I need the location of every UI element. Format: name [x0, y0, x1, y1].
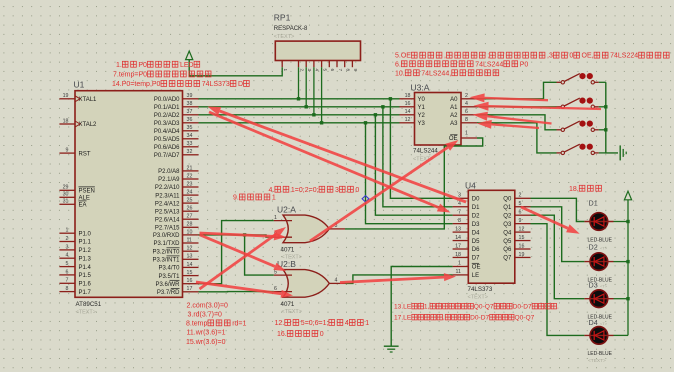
wire P0.2 net from U1 pin37 to U3 Y2: [199, 114, 400, 116]
svg-text:17: 17: [455, 243, 461, 249]
svg-text:18: 18: [63, 118, 69, 124]
svg-text:U3:A: U3:A: [411, 83, 430, 93]
svg-text:18: 18: [455, 252, 461, 258]
svg-text:P1.0: P1.0: [79, 231, 92, 237]
wire U4 Q2 to LED D3: [531, 215, 585, 299]
svg-text:D5: D5: [472, 239, 480, 245]
power symbol VCC arrow for LED bus: [624, 191, 631, 200]
svg-text:6: 6: [519, 210, 522, 216]
svg-text:74LS244: 74LS244: [475, 61, 503, 68]
svg-text:<TEXT>: <TEXT>: [282, 309, 302, 315]
svg-text:P0.3/AD3: P0.3/AD3: [154, 121, 180, 127]
svg-text:1: 1: [274, 215, 277, 221]
junction P0.2 branch: [374, 113, 377, 116]
svg-text:Q2: Q2: [503, 213, 512, 219]
svg-text:<TEXT>: <TEXT>: [76, 310, 96, 316]
svg-text:32: 32: [187, 149, 193, 155]
wire SW1 to ground bus: [599, 81, 606, 83]
U3:A right pin stubs A0-A3: [461, 99, 477, 123]
svg-text:13: 13: [187, 254, 193, 260]
junction P3.0 branch: [243, 233, 246, 236]
junction SW3 bus: [604, 128, 607, 131]
svg-text:7: 7: [338, 69, 343, 72]
svg-text:P1.1: P1.1: [79, 240, 92, 246]
svg-text:RESPACK-8: RESPACK-8: [274, 26, 308, 32]
arrow to U4 LE pin: [340, 273, 456, 282]
svg-text:18.: 18.: [569, 186, 579, 193]
wire U2:A output pin3 to U3:A OE: [345, 138, 483, 229]
svg-text:P0: P0: [138, 62, 147, 69]
LED D1 LED-BLUE: [584, 213, 613, 231]
svg-text:6.: 6.: [395, 61, 401, 68]
svg-text:D2: D2: [589, 243, 598, 252]
arrow switch to U3 A2: [473, 112, 552, 124]
svg-text:P3.5/T1: P3.5/T1: [158, 274, 180, 280]
arrow to U2:B pin5: [200, 235, 287, 271]
svg-text:P2.6/A14: P2.6/A14: [155, 217, 180, 223]
svg-text:<TEXT>: <TEXT>: [588, 358, 606, 364]
svg-text:Q0: Q0: [503, 197, 512, 203]
svg-text:D0: D0: [472, 197, 480, 203]
U2:B pin numbers: [274, 269, 337, 292]
svg-text:P0.5/AD5: P0.5/AD5: [154, 137, 180, 143]
arrow to LED D1: [521, 207, 580, 234]
svg-text:26: 26: [187, 206, 193, 212]
svg-text:28: 28: [187, 222, 193, 228]
U1 left pin numbers: [63, 93, 69, 292]
svg-text:15.wr(3.6)=0: 15.wr(3.6)=0: [186, 339, 226, 346]
svg-text:,: ,: [443, 315, 445, 322]
wire P3.0 branch to U2:B pin5: [245, 235, 274, 275]
U1 right pin numbers: [187, 93, 193, 292]
svg-text:D0-D7: D0-D7: [470, 315, 489, 322]
wire P3.7 to U2:B pin6: [199, 291, 274, 293]
wire P3.6 to U2:A pin1: [199, 221, 274, 284]
wire P0.0 net from U1 pin39 to U3 Y0: [199, 98, 400, 100]
svg-text:P0.2/AD2: P0.2/AD2: [154, 113, 180, 119]
svg-text:3: 3: [335, 187, 339, 194]
svg-text:LED-BLUE: LED-BLUE: [588, 351, 613, 357]
wires LED right leads to bus: [614, 222, 629, 336]
svg-text:2: 2: [519, 193, 522, 199]
svg-text:23: 23: [187, 181, 193, 187]
ground symbol below U4: [384, 346, 399, 352]
junction LED D3 bus: [626, 297, 629, 300]
svg-text:OE,: OE,: [582, 53, 594, 60]
svg-text:<TEXT>: <TEXT>: [468, 295, 488, 301]
svg-text:16: 16: [519, 243, 525, 249]
MCU U1 AT89C51 body: [75, 91, 183, 298]
svg-text:4: 4: [335, 278, 338, 284]
svg-text:LE: LE: [472, 273, 479, 279]
svg-text:P0.4/AD4: P0.4/AD4: [154, 129, 180, 135]
svg-text:33: 33: [187, 141, 193, 147]
LED D3 LED-BLUE: [584, 290, 613, 308]
svg-text:8: 8: [465, 117, 468, 123]
svg-text:1,: 1,: [424, 304, 430, 311]
switch SW2: [557, 98, 599, 109]
svg-text:2: 2: [66, 236, 69, 242]
svg-text:1: 1: [365, 320, 369, 327]
svg-text:P2.5/A13: P2.5/A13: [155, 209, 180, 215]
svg-text:Y0: Y0: [418, 97, 426, 103]
U3:A right pin numbers: [465, 93, 468, 123]
svg-text:Q6: Q6: [503, 247, 512, 253]
svg-text:17: 17: [187, 286, 193, 292]
svg-text:Q7: Q7: [503, 256, 512, 262]
svg-text:4: 4: [315, 69, 320, 72]
svg-text:P1.7: P1.7: [79, 290, 92, 296]
resistor pack RP1 RESPACK-8 body: [275, 41, 360, 60]
annotation note 13/17 below U4: [394, 303, 559, 321]
wire U4 Q3 to LED D4: [531, 224, 585, 336]
arrow switch to U3 A3: [477, 120, 540, 129]
svg-text:4: 4: [66, 253, 69, 259]
svg-text:P2.1/A9: P2.1/A9: [158, 177, 180, 183]
junction SW2 bus: [604, 105, 607, 108]
svg-text:P3.4/T0: P3.4/T0: [158, 266, 180, 272]
svg-text:P2.2/A10: P2.2/A10: [155, 185, 180, 191]
wire U3 A2 to switch SW3: [477, 115, 557, 130]
svg-text:5: 5: [66, 261, 69, 267]
wire P0.0 branch down to U4 D0: [390, 99, 452, 199]
U1 XTAL clock markers: [75, 96, 80, 127]
svg-text:<TEXT>: <TEXT>: [274, 34, 294, 40]
svg-text:36: 36: [187, 117, 193, 123]
U2:A input pin stubs: [274, 220, 292, 222]
svg-text:0: 0: [320, 331, 324, 338]
svg-text:A0: A0: [450, 97, 458, 103]
svg-text:Q4: Q4: [503, 230, 512, 236]
wire P0.1 branch down to U4 D1: [383, 107, 453, 207]
svg-text:1.: 1.: [116, 62, 122, 69]
U3:A pin names Y0-Y3: [418, 97, 426, 127]
U4 pin names D0-D7: [472, 197, 480, 262]
svg-text:P0.6/AD6: P0.6/AD6: [154, 145, 180, 151]
or-gate U2:B 4071 body: [283, 270, 329, 298]
svg-text:11: 11: [187, 237, 193, 243]
svg-text:XTAL1: XTAL1: [79, 97, 98, 103]
svg-text:3: 3: [66, 244, 69, 250]
svg-text:P2.3/A11: P2.3/A11: [155, 193, 180, 199]
svg-text:7.temp=P0: 7.temp=P0: [113, 72, 147, 79]
U2:B output pin stub: [329, 282, 345, 284]
LED D2 LED-BLUE: [584, 253, 613, 271]
wire SW2 to ground bus: [599, 106, 606, 108]
svg-text:A3: A3: [450, 121, 458, 127]
svg-text:AT89C51: AT89C51: [76, 301, 102, 308]
annotation note 1/7/14 top-left: [112, 61, 249, 88]
svg-text:PSEN: PSEN: [79, 189, 95, 195]
svg-text:7: 7: [458, 210, 461, 216]
svg-text:<T>: <T>: [600, 321, 608, 326]
svg-text:13: 13: [455, 227, 461, 233]
svg-text:74LS224: 74LS224: [610, 53, 638, 60]
svg-text:13.LE: 13.LE: [394, 304, 412, 311]
svg-text:P0.1/AD1: P0.1/AD1: [154, 105, 180, 111]
svg-text:11.wr(3.6)=1: 11.wr(3.6)=1: [187, 329, 226, 336]
svg-text:Q1: Q1: [503, 205, 512, 211]
svg-text:D1: D1: [472, 205, 480, 211]
svg-text:12: 12: [187, 246, 193, 252]
or-gate U2:A 4071 body: [283, 215, 329, 243]
arrow long to U4 D2 pin: [209, 112, 451, 213]
arrow long to U1 P0.1 pin: [208, 107, 467, 203]
U1 right pin names: [152, 97, 180, 296]
U4 right pin stubs Q0-Q7: [515, 198, 531, 257]
svg-text:P2.7/A15: P2.7/A15: [155, 226, 180, 232]
wire RP1 pin4 to P0.2 net: [313, 67, 315, 115]
svg-text:D2: D2: [472, 213, 480, 219]
svg-text:12: 12: [519, 227, 525, 233]
wire U3 A3 to switch SW4: [477, 123, 557, 153]
junction P0.1 branch: [381, 105, 384, 108]
svg-text:<T>: <T>: [600, 246, 608, 251]
svg-text:7: 7: [66, 278, 69, 284]
junction P0.1/RP1 pin3: [305, 105, 308, 108]
svg-text:RST: RST: [79, 151, 91, 157]
svg-text:4071: 4071: [281, 247, 295, 254]
annotation note 4/9 near U2:A: [233, 186, 359, 201]
svg-text:24: 24: [187, 190, 193, 196]
svg-text:18: 18: [405, 93, 411, 99]
svg-text:P2.4/A12: P2.4/A12: [155, 201, 180, 207]
svg-text:4.: 4.: [269, 187, 275, 194]
wire RP1 pin3 to P0.1 net: [305, 67, 307, 107]
svg-text:P1.2: P1.2: [79, 248, 92, 254]
wire U4 Q1 to LED D2: [531, 207, 585, 262]
svg-text:17.LE: 17.LE: [394, 315, 412, 322]
svg-text:8: 8: [346, 69, 351, 72]
svg-text:4: 4: [465, 101, 468, 107]
svg-text:P1.5: P1.5: [79, 273, 92, 279]
power symbol VCC arrow at RP1 common: [186, 51, 193, 60]
arrow switch to U3 A1: [474, 102, 602, 111]
svg-text:30: 30: [63, 192, 69, 198]
svg-text:D3: D3: [472, 222, 480, 228]
svg-text:6: 6: [66, 269, 69, 275]
svg-text:14.P0=temp,P0: 14.P0=temp,P0: [112, 81, 161, 88]
U2:B input pin stubs: [274, 274, 292, 276]
svg-text:14: 14: [187, 262, 193, 268]
svg-text:P3.2/INT0: P3.2/INT0: [152, 249, 180, 255]
wire U3 A1 to switch SW2: [477, 106, 557, 108]
svg-text:0: 0: [569, 53, 573, 60]
svg-text:,3: ,3: [547, 53, 553, 60]
svg-text:74LS244,: 74LS244,: [421, 70, 451, 77]
U3:A left pin stubs Y0-Y3: [400, 99, 415, 123]
svg-text:U1: U1: [74, 80, 85, 90]
junction P0.0 branch: [389, 97, 392, 100]
svg-text:21: 21: [187, 165, 193, 171]
wire switch common bus to ground: [606, 82, 618, 153]
svg-text:2: 2: [465, 93, 468, 99]
svg-text:1: 1: [272, 195, 276, 202]
svg-text:16.: 16.: [277, 331, 287, 338]
svg-text:1: 1: [458, 261, 461, 267]
svg-text:2.com(3.0)=0: 2.com(3.0)=0: [187, 303, 229, 310]
svg-text:P2.0/A8: P2.0/A8: [158, 169, 180, 175]
buffer U3:A 74LS244 body: [415, 93, 462, 146]
svg-text:19: 19: [519, 252, 525, 258]
arrow to U3 OE label: [310, 140, 459, 241]
svg-text:P1.3: P1.3: [79, 256, 92, 262]
U4 OE pin stub: [453, 266, 469, 268]
switch SW4: [557, 144, 599, 155]
annotation note 12/16 below U2:B: [275, 320, 370, 339]
svg-text:;: ;: [487, 53, 489, 60]
svg-text:RP1: RP1: [274, 13, 291, 23]
svg-text:XTAL2: XTAL2: [79, 122, 98, 128]
junction P0.3/RP1 pin5: [320, 121, 323, 124]
svg-text:6: 6: [330, 69, 335, 72]
svg-text:74LS373: 74LS373: [202, 81, 230, 88]
svg-text:9: 9: [66, 148, 69, 154]
svg-text:16: 16: [187, 278, 193, 284]
svg-text:8: 8: [458, 218, 461, 224]
svg-text:1: 1: [465, 130, 468, 136]
U3:A OE pin stub: [461, 137, 477, 139]
svg-text:37: 37: [187, 109, 193, 115]
svg-text:31: 31: [63, 199, 69, 205]
svg-text:D3: D3: [589, 281, 598, 290]
svg-text:1=0;2=0;: 1=0;2=0;: [291, 187, 319, 194]
svg-text:22: 22: [187, 173, 193, 179]
svg-text:5: 5: [519, 201, 522, 207]
svg-text:P3.6/WR: P3.6/WR: [155, 282, 180, 288]
annotation note 2/3/8/11/15 below U1: [186, 303, 247, 346]
latch U4 74LS373 body: [468, 190, 515, 283]
U3:A pin names A0-A3: [450, 97, 458, 127]
svg-text:39: 39: [187, 93, 193, 99]
wire U4 OE to ground: [391, 267, 452, 346]
U3:A left pin numbers: [405, 93, 411, 123]
svg-text:9: 9: [353, 69, 358, 72]
svg-text:D1: D1: [589, 199, 598, 208]
svg-text:EA: EA: [79, 203, 87, 209]
arrow switch to U3 A0: [470, 93, 549, 102]
U4 left pin stubs D0-D7: [453, 198, 469, 257]
svg-text:P0.0/AD0: P0.0/AD0: [154, 97, 180, 103]
node marker blue diamond on P0.3 branch: [362, 196, 369, 202]
svg-text:.: .: [557, 304, 559, 311]
svg-text:U2:A: U2:A: [277, 205, 296, 215]
svg-text:Q0-Q7: Q0-Q7: [515, 315, 535, 322]
wire P0.2 branch down to U4 D2: [375, 115, 452, 215]
svg-text:10: 10: [187, 229, 193, 235]
svg-text:Q5: Q5: [503, 239, 512, 245]
LED D4 LED-BLUE: [584, 327, 613, 345]
svg-text:25: 25: [187, 198, 193, 204]
svg-text:D: D: [238, 81, 243, 88]
svg-text:74LS244: 74LS244: [413, 148, 438, 155]
arrow to U2:B pin6: [196, 282, 293, 298]
svg-text:U4: U4: [465, 181, 476, 191]
svg-text:P1.6: P1.6: [79, 282, 92, 288]
svg-text:5=0;6=1;: 5=0;6=1;: [301, 320, 329, 327]
junction LED D1 bus: [626, 220, 629, 223]
RP1 pin numbers 1-9: [283, 69, 358, 72]
svg-text:<T>: <T>: [600, 284, 608, 289]
arrow to U2:A pin2: [200, 232, 287, 240]
svg-text:A2: A2: [450, 113, 458, 119]
svg-text:P3.1/TXD: P3.1/TXD: [153, 241, 180, 247]
svg-text:9: 9: [519, 218, 522, 224]
U2:A pin numbers: [274, 215, 337, 238]
svg-text:P3.0/RXD: P3.0/RXD: [153, 233, 180, 239]
wire RP1 pin5 to P0.3 net: [321, 67, 323, 123]
svg-text:14: 14: [405, 109, 411, 115]
ground symbol right of switches: [620, 145, 626, 160]
svg-text:4: 4: [458, 201, 461, 207]
svg-text:15: 15: [187, 270, 193, 276]
svg-text:5: 5: [322, 69, 327, 72]
wire LED anode bus: [627, 200, 629, 336]
svg-text:P0: P0: [520, 61, 529, 68]
svg-text:14: 14: [455, 235, 461, 241]
svg-text:27: 27: [187, 214, 193, 220]
svg-text:D0-D7: D0-D7: [513, 304, 532, 311]
svg-text:38: 38: [187, 101, 193, 107]
wire U4 Q0 to LED D1: [531, 198, 585, 221]
svg-text:0: 0: [355, 187, 359, 194]
RP1 pin stubs: [282, 61, 352, 68]
U2:A output pin stub: [329, 228, 345, 230]
junction P0.3 branch: [364, 121, 367, 124]
svg-text:19: 19: [63, 93, 69, 99]
svg-text:3.rd(3.7)=0: 3.rd(3.7)=0: [188, 311, 223, 318]
svg-text:4071: 4071: [281, 301, 295, 308]
svg-text:A1: A1: [450, 105, 458, 111]
wire U2:B output pin4 to U4 LE: [345, 275, 453, 284]
svg-text:6: 6: [465, 109, 468, 115]
svg-text:Y2: Y2: [418, 113, 426, 119]
svg-text:16: 16: [405, 101, 411, 107]
U1 right pin stubs: [183, 99, 199, 292]
svg-text:LED: LED: [180, 62, 194, 69]
U1 left pin names: [79, 97, 98, 296]
U1 left pin stubs: [59, 99, 75, 292]
svg-text:9.: 9.: [233, 195, 239, 202]
svg-text:15: 15: [519, 235, 525, 241]
wire P0.3 branch down to U4 D3: [366, 123, 453, 224]
junction P0.2/RP1 pin4: [312, 113, 315, 116]
switch SW1: [557, 73, 599, 84]
svg-text:1: 1: [283, 69, 288, 72]
svg-text:11: 11: [456, 269, 462, 275]
svg-text:Q3: Q3: [503, 222, 512, 228]
wire RP1 pin2 to P0.0 net: [298, 67, 300, 99]
svg-text:12: 12: [405, 117, 411, 123]
svg-text:8: 8: [66, 286, 69, 292]
wire P0.3 net from U1 pin36 to U3 Y3: [199, 122, 400, 124]
svg-text:74LS373: 74LS373: [468, 286, 493, 293]
switch SW3: [557, 121, 599, 132]
svg-text:D4: D4: [472, 230, 480, 236]
wire P0.1 net from U1 pin38 to U3 Y1: [199, 106, 400, 108]
junction P0.0/RP1 pin2: [297, 97, 300, 100]
U4 pin names Q0-Q7: [503, 197, 512, 262]
wire SW3 to ground bus: [599, 129, 606, 131]
svg-text:29: 29: [63, 185, 69, 191]
arrow to U2:A pin1: [200, 227, 287, 289]
svg-text:P3.3/INT1: P3.3/INT1: [152, 258, 180, 264]
svg-text:8.temp: 8.temp: [186, 320, 208, 327]
svg-text:rd=1: rd=1: [232, 320, 246, 327]
wire P3.0 to U2:A pin2: [199, 235, 274, 237]
U4 LE pin stub: [453, 274, 469, 276]
svg-text:OE: OE: [472, 265, 481, 271]
